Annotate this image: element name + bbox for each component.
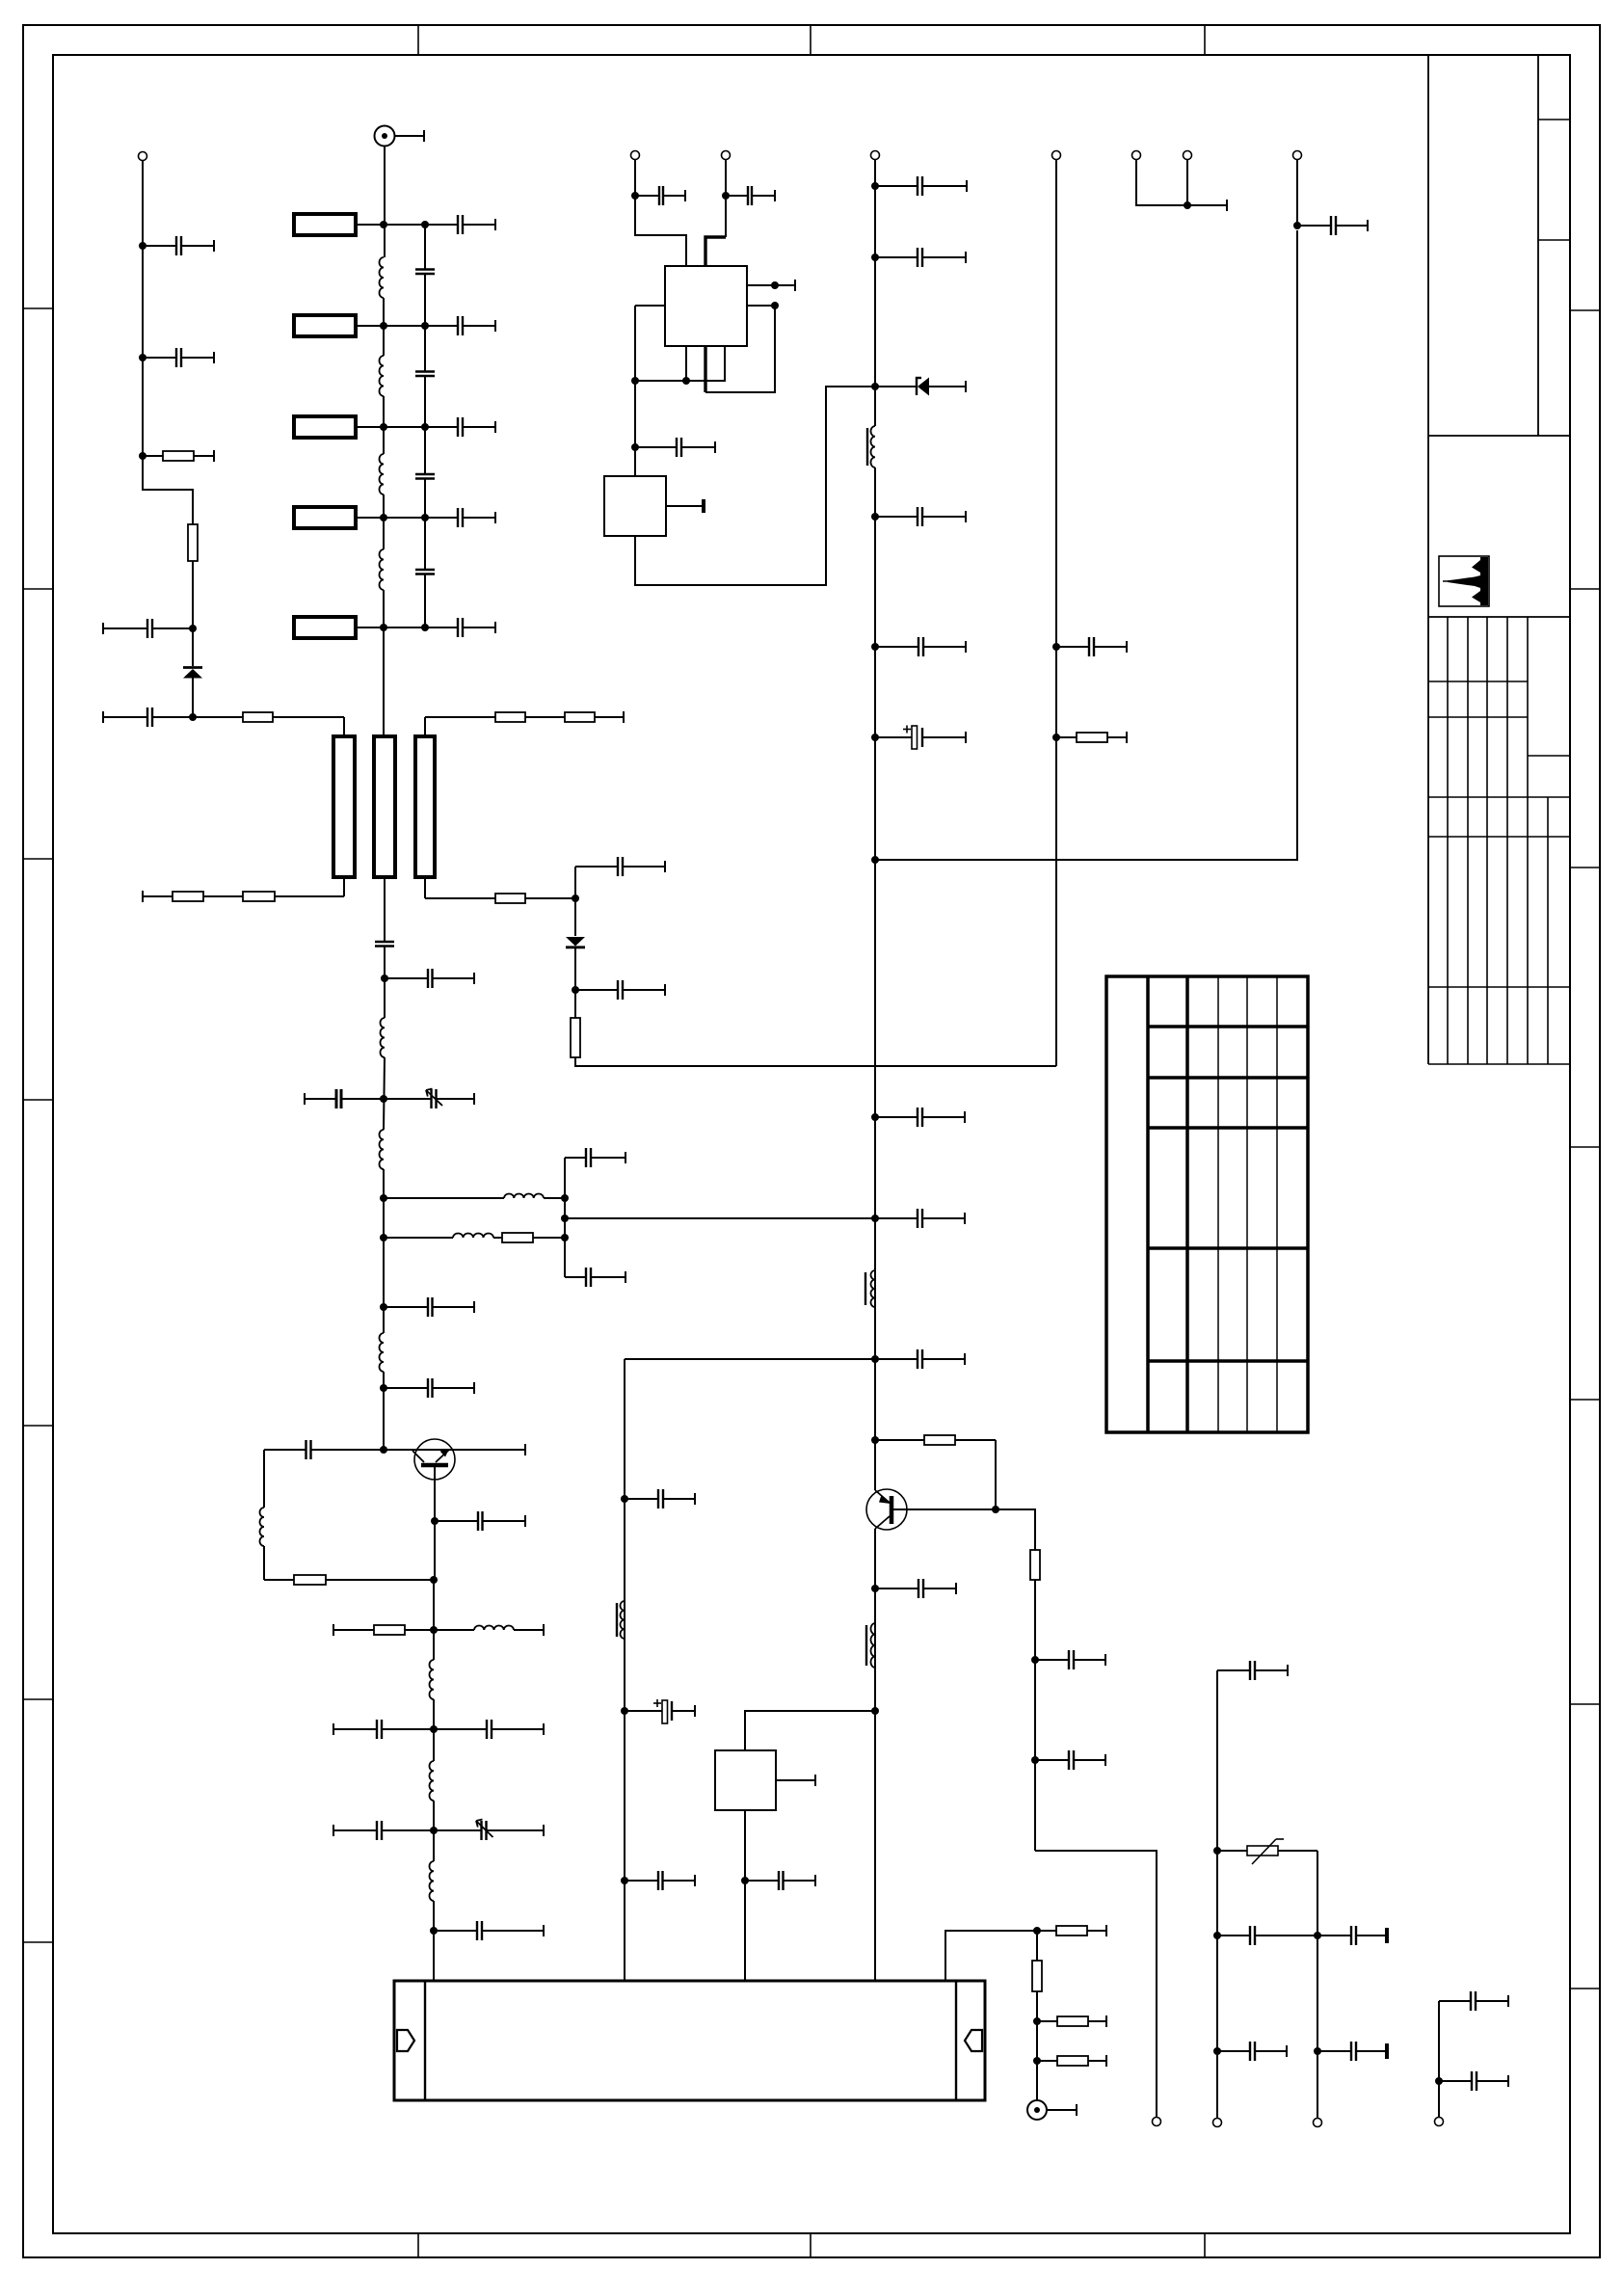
node [631, 192, 639, 200]
capacitor C46 [625, 1871, 695, 1890]
wire [574, 867, 576, 936]
frame tick top [810, 25, 811, 55]
node [631, 443, 639, 451]
node [380, 221, 387, 228]
node [430, 1626, 438, 1634]
wire [1034, 1580, 1036, 1851]
node [621, 1877, 628, 1884]
wire [343, 717, 345, 736]
capacitor C31 [635, 438, 715, 457]
wire [143, 160, 193, 524]
capacitor C50 [1317, 1926, 1389, 1945]
resistor R9 [571, 1018, 580, 1057]
resonator X1 [333, 736, 355, 877]
node [871, 856, 879, 864]
node [1031, 1756, 1039, 1764]
wire [384, 877, 386, 942]
inductor L8 [384, 1234, 493, 1239]
node [871, 383, 879, 390]
inductor L14 [430, 1861, 435, 1901]
capacitor C1 [143, 236, 214, 255]
node [621, 1707, 628, 1715]
node [380, 624, 387, 631]
node [561, 1234, 569, 1241]
node [871, 182, 879, 190]
resistor R6 [243, 892, 344, 901]
node [421, 322, 429, 330]
resistor R11 [264, 1575, 434, 1585]
capacitor C3 [103, 619, 193, 638]
wire [424, 877, 426, 898]
capacitor C8 [425, 316, 495, 335]
node [1314, 2047, 1321, 2055]
wire [1136, 160, 1227, 212]
terminal P8 [1314, 2119, 1322, 2127]
capacitor C38 [875, 1108, 965, 1127]
title block logo box [1439, 556, 1489, 606]
resistor R4 [425, 712, 565, 722]
wire [383, 1169, 385, 1333]
terminal P11 [1132, 151, 1141, 160]
node [1435, 2077, 1443, 2085]
capacitor C2 [143, 348, 214, 367]
wire [263, 1450, 265, 1508]
inductor L6 [380, 1130, 385, 1169]
capacitor C53 [1439, 1991, 1508, 2011]
node [871, 1113, 879, 1121]
wire [725, 160, 727, 238]
parts table thin column lines [1218, 976, 1277, 1432]
capacitor C16 [575, 857, 665, 876]
capacitor C10 [425, 417, 495, 437]
node [871, 254, 879, 261]
capacitor C14 [375, 942, 394, 947]
frame tick left [23, 588, 53, 590]
wire [666, 499, 705, 513]
capacitor C45 electrolytic [625, 1699, 695, 1723]
capacitor C47 [745, 1871, 815, 1890]
inductor L7 [384, 1194, 565, 1199]
resistor R15 [1037, 1925, 1106, 1936]
capacitor C23 [264, 1440, 384, 1459]
capacitor C12 [425, 508, 495, 527]
diode D1 [183, 668, 202, 718]
resistor R16 [1032, 1961, 1042, 1991]
resistor R7 [143, 891, 243, 902]
diode D2 [566, 937, 585, 1018]
wire [874, 1529, 876, 1981]
node [561, 1194, 569, 1202]
capacitor C19 [565, 1148, 625, 1167]
wire [564, 1158, 566, 1277]
capacitor C13 [425, 618, 495, 637]
capacitor C20 [565, 1268, 625, 1287]
wire [1317, 1851, 1318, 2118]
node [572, 894, 579, 902]
node [871, 1585, 879, 1592]
U4 pin marker right [965, 2030, 982, 2051]
capacitor C24 [435, 1511, 525, 1531]
wire [424, 274, 426, 371]
node [1031, 1656, 1039, 1664]
wire [384, 1057, 385, 1130]
terminal P9 [1435, 2118, 1444, 2126]
node [1213, 1847, 1221, 1855]
wire [1216, 1670, 1218, 2118]
capacitor C30 [726, 186, 775, 205]
transistor Q2 [866, 1489, 996, 1530]
capacitor C49 [1217, 1926, 1317, 1945]
resistor R17 [1037, 2016, 1106, 2027]
capacitor C17 [575, 980, 665, 1000]
node [380, 1384, 387, 1392]
wire [635, 306, 665, 476]
inductor L10 [260, 1508, 265, 1546]
wire [705, 237, 726, 266]
wire [996, 1509, 1035, 1550]
frame tick right [1570, 588, 1600, 590]
frame tick right [1570, 1399, 1600, 1401]
node [1033, 1927, 1041, 1935]
wire [705, 306, 775, 392]
capacitor C21 [384, 1297, 474, 1317]
wire [433, 1801, 435, 1861]
node [430, 1927, 438, 1935]
terminal P7 [1213, 2119, 1222, 2127]
diode D3 [875, 377, 966, 396]
node [722, 192, 730, 200]
capacitor C40 [875, 1349, 965, 1369]
node [771, 302, 779, 309]
wire [433, 1901, 435, 1981]
varistor RV1 [1217, 1839, 1317, 1864]
filter F4 [294, 507, 425, 528]
node [430, 1827, 438, 1834]
terminal P1 [139, 152, 147, 161]
inductor L12 [430, 1660, 435, 1699]
wire [945, 1931, 1037, 1981]
terminal P6 [1153, 2118, 1161, 2126]
capacitor C33 [875, 248, 966, 267]
wire [383, 590, 385, 736]
wire [685, 346, 687, 381]
capacitor C9 [415, 474, 435, 479]
terminal P3 [722, 151, 731, 160]
frame tick bottom [1204, 2233, 1206, 2257]
capacitor C44 [625, 1489, 695, 1508]
wire [635, 160, 686, 267]
node [139, 354, 146, 361]
wire [1186, 160, 1188, 206]
node [421, 624, 429, 631]
frame tick bottom [417, 2233, 419, 2257]
resistor R12 [333, 1624, 434, 1636]
resistor R19 [1056, 732, 1127, 743]
wire [744, 1810, 746, 1981]
resistor R1 [143, 450, 214, 462]
node [1213, 1932, 1221, 1939]
inductor L18 [617, 1601, 625, 1639]
parts table row lines [1148, 1027, 1308, 1361]
capacitor C32 [875, 176, 967, 196]
wire [1036, 1991, 1038, 2100]
wire [192, 561, 194, 666]
capacitor C28 [434, 1921, 544, 1940]
wire [424, 479, 426, 571]
node [421, 221, 429, 228]
coax connector J2 [1027, 2100, 1077, 2120]
node [1033, 2057, 1041, 2065]
wire [995, 1440, 997, 1509]
wire [383, 494, 385, 549]
terminal P10 [1052, 151, 1061, 160]
capacitor C15 [385, 969, 474, 988]
wire [625, 1358, 875, 1360]
wire [874, 467, 876, 1490]
frame tick bottom [810, 2233, 811, 2257]
wire [384, 947, 386, 1019]
node [1184, 201, 1191, 209]
wire [424, 574, 426, 628]
node [871, 1707, 879, 1715]
capacitor C43 [875, 1579, 956, 1598]
node [871, 1355, 879, 1363]
inductor L3 [380, 454, 385, 494]
wire [383, 298, 385, 356]
filter F5 [294, 617, 425, 638]
resonator X3 [415, 736, 435, 877]
wire [775, 280, 795, 291]
capacitor C18 [305, 1089, 384, 1108]
capacitor C4 [103, 707, 193, 727]
wire [747, 305, 775, 307]
capacitor C7 [415, 372, 435, 377]
node [1052, 643, 1060, 651]
capacitor C39 [875, 1209, 965, 1228]
capacitor C26 [434, 1720, 544, 1739]
node [631, 377, 639, 385]
filter F3 [294, 416, 425, 438]
IC U2 [604, 476, 666, 536]
frame tick left [23, 1698, 53, 1700]
resistor R14 [1030, 1550, 1040, 1580]
wire [424, 717, 426, 736]
node [682, 377, 690, 385]
terminal P2 [631, 151, 640, 160]
node [380, 1095, 387, 1103]
wire [745, 1711, 875, 1750]
title block table grid [1428, 617, 1570, 1064]
capacitor C41 [1035, 1650, 1105, 1669]
node [1314, 1932, 1321, 1939]
wire [424, 376, 426, 474]
IC U3 [715, 1750, 776, 1810]
inductor L17 [866, 1623, 875, 1668]
frame tick top [417, 25, 419, 55]
node [741, 1877, 749, 1884]
wire [624, 1359, 625, 1981]
wire [704, 346, 706, 392]
U4 pin1 marker [397, 2030, 414, 2051]
node [871, 1215, 879, 1222]
node [430, 1576, 438, 1584]
capacitor C54 [1439, 2071, 1508, 2091]
node [1293, 222, 1301, 229]
node [380, 1194, 387, 1202]
capacitor C5 [415, 270, 435, 275]
wire [1296, 160, 1298, 227]
wire [635, 387, 875, 585]
wire [383, 1372, 385, 1450]
node [189, 625, 197, 632]
terminal P5 [1293, 151, 1302, 160]
inductor L15 [867, 426, 875, 467]
wire [263, 1546, 265, 1580]
node [561, 1215, 569, 1222]
resonator X2 [374, 736, 395, 877]
wire [383, 396, 385, 454]
wire [433, 1580, 435, 1660]
node [380, 423, 387, 431]
wire [433, 1699, 435, 1761]
resistor R10 [493, 1233, 565, 1242]
wire [1035, 1851, 1157, 2117]
capacitor C6 [425, 215, 495, 234]
node [431, 1517, 439, 1525]
node [871, 643, 879, 651]
node [380, 1234, 387, 1241]
wire [424, 225, 426, 269]
inductor L16 [865, 1270, 875, 1307]
capacitor C48 [1217, 1661, 1288, 1680]
resistor R3 [193, 712, 344, 722]
IC U1 [665, 266, 747, 346]
node [1052, 734, 1060, 741]
capacitor C22 [384, 1378, 474, 1398]
capacitor C36 electrolytic [875, 726, 966, 750]
IC U4 [394, 1981, 985, 2100]
wire [874, 160, 876, 427]
wire [1438, 2001, 1440, 2117]
capacitor C55 [1056, 637, 1127, 656]
frame tick right [1570, 1146, 1600, 1148]
node [380, 514, 387, 521]
wire [1036, 1931, 1038, 1961]
wire [747, 284, 775, 286]
frame tick left [23, 1425, 53, 1427]
frame tick left [23, 1941, 53, 1943]
node [572, 986, 579, 994]
node [189, 713, 197, 721]
transistor Q1 [384, 1439, 525, 1580]
node [1033, 2017, 1041, 2025]
node [771, 281, 779, 289]
inductor L11 [434, 1624, 544, 1636]
frame tick left [23, 858, 53, 860]
parts table thick column lines [1148, 976, 1187, 1432]
frame tick right [1570, 1703, 1600, 1705]
terminal P4 [871, 151, 880, 160]
inductor L13 [430, 1761, 435, 1801]
node [139, 452, 146, 460]
node [871, 513, 879, 521]
frame tick left [23, 307, 53, 309]
wire [575, 1057, 1056, 1066]
resistor R5 [565, 711, 624, 723]
capacitor C27 [333, 1821, 434, 1840]
inductor L5 [381, 1018, 386, 1057]
node [421, 514, 429, 521]
capacitor C51 [1217, 2042, 1287, 2061]
resistor R13 [875, 1435, 996, 1445]
node [871, 734, 879, 741]
node [380, 1303, 387, 1311]
inductor L2 [380, 356, 385, 396]
title block outline [1428, 55, 1570, 1064]
resistor R8 [425, 894, 575, 903]
capacitor C11 [415, 570, 435, 574]
inductor L4 [380, 549, 385, 590]
node [621, 1495, 628, 1503]
wire [565, 1217, 875, 1219]
capacitor C25 [333, 1720, 434, 1739]
frame tick right [1570, 867, 1600, 868]
node [381, 974, 388, 982]
node [430, 1725, 438, 1733]
wire [1055, 160, 1057, 1067]
node [139, 242, 146, 250]
capacitor C29 [635, 186, 685, 205]
inductor L1 [380, 257, 385, 298]
coax connector J1 [375, 126, 425, 147]
frame tick top [1204, 25, 1206, 55]
capacitor C42 [1035, 1750, 1105, 1770]
terminal P12 [1184, 151, 1192, 160]
node [1213, 2047, 1221, 2055]
wire [776, 1775, 815, 1786]
node [421, 423, 429, 431]
capacitor C35 [875, 637, 966, 656]
inductor L9 [380, 1333, 385, 1372]
node [380, 1446, 387, 1454]
wire [875, 230, 1297, 860]
resistor R18 [1037, 2055, 1106, 2067]
node [380, 322, 387, 330]
title block logo castle silhouette [1443, 557, 1488, 605]
capacitor C37 [1297, 216, 1368, 235]
capacitor C34 [875, 507, 966, 526]
wire [635, 346, 725, 381]
resistor R2 [188, 524, 198, 561]
wire [384, 147, 386, 258]
capacitor C52 [1317, 2042, 1389, 2061]
trimmer capacitor CT1 [384, 1089, 474, 1109]
node [992, 1506, 999, 1513]
trimmer capacitor CT2 [434, 1820, 544, 1841]
node [871, 1436, 879, 1444]
frame tick left [23, 1099, 53, 1101]
filter F1 [294, 214, 425, 235]
filter F2 [294, 315, 425, 336]
frame tick right [1570, 309, 1600, 311]
wire [343, 877, 345, 896]
frame tick right [1570, 1988, 1600, 1989]
parts table frame [1106, 976, 1308, 1432]
